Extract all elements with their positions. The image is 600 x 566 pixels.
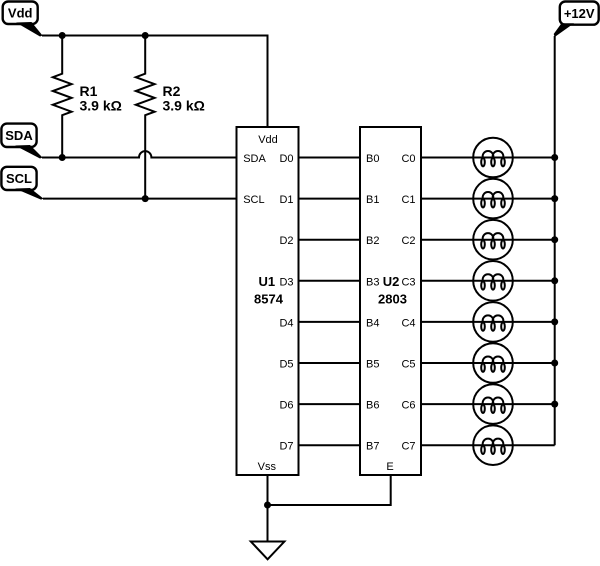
svg-text:B2: B2 bbox=[366, 235, 379, 247]
svg-text:C4: C4 bbox=[401, 317, 415, 329]
svg-text:B3: B3 bbox=[366, 276, 379, 288]
svg-text:D0: D0 bbox=[279, 153, 293, 165]
svg-text:3.9 kΩ: 3.9 kΩ bbox=[163, 98, 205, 114]
svg-text:C5: C5 bbox=[401, 359, 415, 371]
svg-text:Vdd: Vdd bbox=[8, 5, 33, 20]
svg-text:C3: C3 bbox=[401, 276, 415, 288]
svg-text:E: E bbox=[386, 461, 393, 473]
svg-text:B0: B0 bbox=[366, 153, 379, 165]
svg-text:Vss: Vss bbox=[258, 461, 277, 473]
svg-text:C0: C0 bbox=[401, 153, 415, 165]
svg-text:C7: C7 bbox=[401, 441, 415, 453]
svg-text:B4: B4 bbox=[366, 317, 379, 329]
svg-text:D4: D4 bbox=[279, 317, 293, 329]
svg-text:C1: C1 bbox=[401, 194, 415, 206]
svg-text:+12V: +12V bbox=[564, 6, 595, 21]
svg-text:B5: B5 bbox=[366, 359, 379, 371]
svg-text:3.9 kΩ: 3.9 kΩ bbox=[80, 98, 122, 114]
svg-text:D6: D6 bbox=[279, 400, 293, 412]
svg-text:D1: D1 bbox=[279, 194, 293, 206]
svg-text:SCL: SCL bbox=[6, 171, 32, 186]
svg-text:D2: D2 bbox=[279, 235, 293, 247]
svg-text:D3: D3 bbox=[279, 276, 293, 288]
svg-text:D7: D7 bbox=[279, 441, 293, 453]
svg-text:U2: U2 bbox=[383, 274, 400, 289]
svg-text:C6: C6 bbox=[401, 400, 415, 412]
svg-text:B6: B6 bbox=[366, 400, 379, 412]
svg-text:B7: B7 bbox=[366, 441, 379, 453]
svg-text:D5: D5 bbox=[279, 359, 293, 371]
svg-text:2803: 2803 bbox=[378, 292, 407, 307]
svg-text:SDA: SDA bbox=[5, 128, 33, 143]
svg-text:Vdd: Vdd bbox=[258, 134, 278, 146]
svg-text:SDA: SDA bbox=[243, 153, 266, 165]
svg-text:U1: U1 bbox=[258, 274, 275, 289]
svg-text:B1: B1 bbox=[366, 194, 379, 206]
svg-text:C2: C2 bbox=[401, 235, 415, 247]
svg-text:SCL: SCL bbox=[243, 194, 264, 206]
svg-text:8574: 8574 bbox=[254, 292, 284, 307]
